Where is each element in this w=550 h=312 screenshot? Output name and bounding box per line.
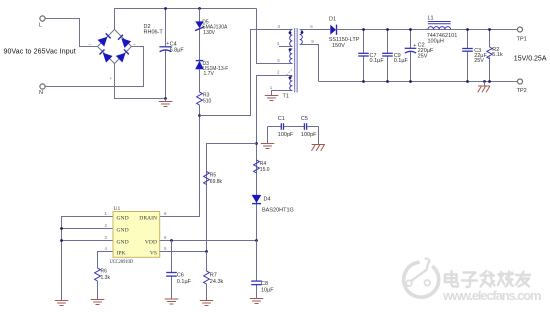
polarity dots <box>289 31 292 34</box>
svg-text:2: 2 <box>277 70 280 75</box>
svg-text:150V: 150V <box>332 43 345 49</box>
capacitor C4 <box>165 9 167 99</box>
wire clamp to pin3 <box>200 30 293 116</box>
capacitor C6 <box>171 241 173 299</box>
ground (C6) <box>165 299 179 304</box>
ground (C1) <box>261 144 275 149</box>
svg-text:130V: 130V <box>203 30 215 36</box>
node TP2 <box>518 79 523 84</box>
resistor R5 <box>204 172 210 185</box>
wire pin2 <box>257 76 293 241</box>
capacitor C9 <box>387 30 389 82</box>
svg-text:UCC28910D: UCC28910D <box>110 259 134 265</box>
svg-text:25V: 25V <box>418 54 428 60</box>
svg-text:D4: D4 <box>264 197 271 203</box>
svg-text:D1: D1 <box>329 17 336 23</box>
IPK wire <box>98 252 113 269</box>
svg-text:~: ~ <box>89 42 92 47</box>
IC U1 <box>113 212 160 258</box>
svg-text:R5: R5 <box>210 173 217 179</box>
VDD wire <box>160 240 257 242</box>
svg-text:R6: R6 <box>101 269 108 275</box>
T1 secondary winding pins 6-9 <box>300 30 303 45</box>
capacitor C5 <box>303 123 305 130</box>
svg-text:3: 3 <box>278 24 281 29</box>
svg-text:4: 4 <box>277 41 280 46</box>
wire pin6 to D1 <box>300 29 331 31</box>
VS wire <box>160 251 207 253</box>
svg-text:C1: C1 <box>278 116 285 122</box>
secondary top rail <box>337 29 518 31</box>
svg-text:1.7V: 1.7V <box>204 71 215 77</box>
secondary bottom rail <box>319 81 518 83</box>
svg-text:5: 5 <box>164 246 167 251</box>
capacitor C1 <box>280 123 282 130</box>
T1 winding B pins 4-5 <box>290 49 293 64</box>
svg-text:15.0: 15.0 <box>260 167 270 173</box>
GND pins wires <box>62 217 113 301</box>
svg-text:100pF: 100pF <box>301 132 317 138</box>
svg-text:0.1µF: 0.1µF <box>394 58 409 64</box>
svg-text:1: 1 <box>105 211 108 216</box>
diode D1 <box>330 25 336 35</box>
watermark chinese char zi <box>462 273 477 288</box>
svg-text:VS: VS <box>150 250 157 256</box>
chassis ground secondary <box>483 80 486 83</box>
wire C5 right to chassis <box>318 127 320 145</box>
bridge D2 outline <box>98 30 132 64</box>
svg-text:DRAIN: DRAIN <box>139 215 157 221</box>
svg-text:GND: GND <box>117 215 129 221</box>
Y-cap network wire <box>268 126 319 128</box>
pin2 tap diagonal <box>286 68 293 75</box>
node TP1 <box>518 27 523 32</box>
svg-text:C6: C6 <box>177 273 184 279</box>
junction D5 top <box>198 7 201 10</box>
junction R3 bottom <box>198 114 201 117</box>
wire L to bridge <box>45 19 97 47</box>
ground (C8) <box>250 299 263 304</box>
resistor R4 <box>254 160 260 173</box>
node L terminal <box>40 16 45 21</box>
junction bridge/C4 bottom <box>164 97 167 100</box>
svg-text:+: + <box>413 43 416 49</box>
svg-text:6: 6 <box>164 235 167 240</box>
svg-text:TP1: TP1 <box>517 36 527 42</box>
resistor R3 <box>197 92 203 105</box>
svg-text:69.8k: 69.8k <box>210 179 223 185</box>
ground (U1 GND) <box>55 301 69 306</box>
bridge diode top-right <box>121 38 131 48</box>
capacitor C3 <box>467 30 469 82</box>
svg-text:24.3k: 24.3k <box>210 279 224 285</box>
svg-text:6: 6 <box>310 24 313 29</box>
resistor R6 <box>95 268 101 281</box>
svg-text:VDD: VDD <box>145 239 157 245</box>
svg-text:C8: C8 <box>261 281 268 287</box>
svg-text:25V: 25V <box>474 58 484 64</box>
svg-text:www.elecfans.com: www.elecfans.com <box>442 288 542 303</box>
watermark chinese char shao <box>498 272 513 287</box>
ground (R6) <box>91 300 105 305</box>
wire to R5 <box>207 144 257 252</box>
svg-text:15V/0.25A: 15V/0.25A <box>514 56 547 63</box>
ground primary (below C4) <box>165 99 167 102</box>
ground T1 pin1 <box>265 96 279 101</box>
svg-text:GND: GND <box>117 227 129 233</box>
svg-text:R7: R7 <box>210 273 217 279</box>
svg-text:2: 2 <box>105 223 108 228</box>
wire N to bridge right vertex <box>45 47 143 87</box>
svg-text:1.3k: 1.3k <box>101 275 111 281</box>
wire pin9 down <box>300 45 319 82</box>
capacitor C7 <box>363 30 365 82</box>
svg-text:0.1µF: 0.1µF <box>177 279 192 285</box>
svg-text:GND: GND <box>117 239 129 245</box>
wire bridge bottom to gnd node <box>115 64 166 99</box>
wire bridge top to rail <box>115 9 257 30</box>
wire C1 left to gnd <box>267 127 269 144</box>
svg-text:T1: T1 <box>283 94 289 100</box>
svg-text:~: ~ <box>133 42 136 47</box>
wire pin1 to gnd <box>272 91 293 96</box>
diode D3 <box>196 60 204 62</box>
svg-text:R4: R4 <box>260 161 267 167</box>
svg-text:+: + <box>110 76 113 81</box>
svg-text:100pF: 100pF <box>278 132 294 138</box>
resistor R7 <box>206 252 208 272</box>
svg-text:TP2: TP2 <box>517 88 527 94</box>
TVS D5 <box>199 9 201 61</box>
transformer T1 core <box>294 28 296 93</box>
junction R4/R5 <box>255 142 258 145</box>
wire rail down to pin5 <box>257 9 293 64</box>
svg-text:C5: C5 <box>301 116 308 122</box>
chassis ground (C5) <box>312 145 325 151</box>
pin4 stub <box>279 46 292 48</box>
svg-text:510: 510 <box>203 99 212 105</box>
svg-text:U1: U1 <box>114 206 121 212</box>
svg-text:-: - <box>107 25 109 30</box>
bridge diode bottom-right <box>116 53 126 63</box>
svg-text:L: L <box>39 23 42 29</box>
svg-text:5: 5 <box>277 58 280 63</box>
resistor R2 <box>489 30 491 82</box>
svg-text:IPK: IPK <box>117 250 126 256</box>
svg-text:6.8µF: 6.8µF <box>170 48 185 54</box>
watermark chinese char fa <box>481 271 495 287</box>
svg-text:3: 3 <box>105 235 108 240</box>
svg-text:L1: L1 <box>428 16 434 22</box>
watermark logo circle <box>404 259 439 297</box>
capacitor C8 <box>256 241 258 299</box>
svg-text:9: 9 <box>311 39 314 44</box>
svg-text:90Vac to 265Vac Input: 90Vac to 265Vac Input <box>4 49 76 56</box>
capacitor C2 <box>410 30 412 82</box>
bridge diode top-left <box>98 37 108 47</box>
ground (R7) <box>200 301 214 306</box>
diode D4 <box>252 195 262 203</box>
T1 winding aux pins 2-1 <box>290 76 293 90</box>
wire R3 to drain <box>160 105 200 217</box>
svg-text:N: N <box>39 90 43 96</box>
junction C4 top <box>164 7 167 10</box>
svg-text:BAS20HT1G: BAS20HT1G <box>262 208 294 214</box>
bridge diode bottom-left <box>103 53 113 63</box>
watermark chinese char dian <box>445 271 458 287</box>
node N terminal <box>40 84 45 89</box>
watermark chinese char you <box>516 272 530 287</box>
svg-text:1: 1 <box>270 85 273 90</box>
svg-text:0.1µF: 0.1µF <box>370 58 385 64</box>
svg-text:100µH: 100µH <box>428 38 444 44</box>
svg-text:RH06-T: RH06-T <box>144 30 164 36</box>
svg-text:5.1k: 5.1k <box>492 52 503 58</box>
svg-text:10µF: 10µF <box>261 287 274 293</box>
svg-text:8: 8 <box>164 211 167 216</box>
svg-text:4: 4 <box>105 246 108 251</box>
T1 winding A pins 3-4 <box>290 30 293 47</box>
